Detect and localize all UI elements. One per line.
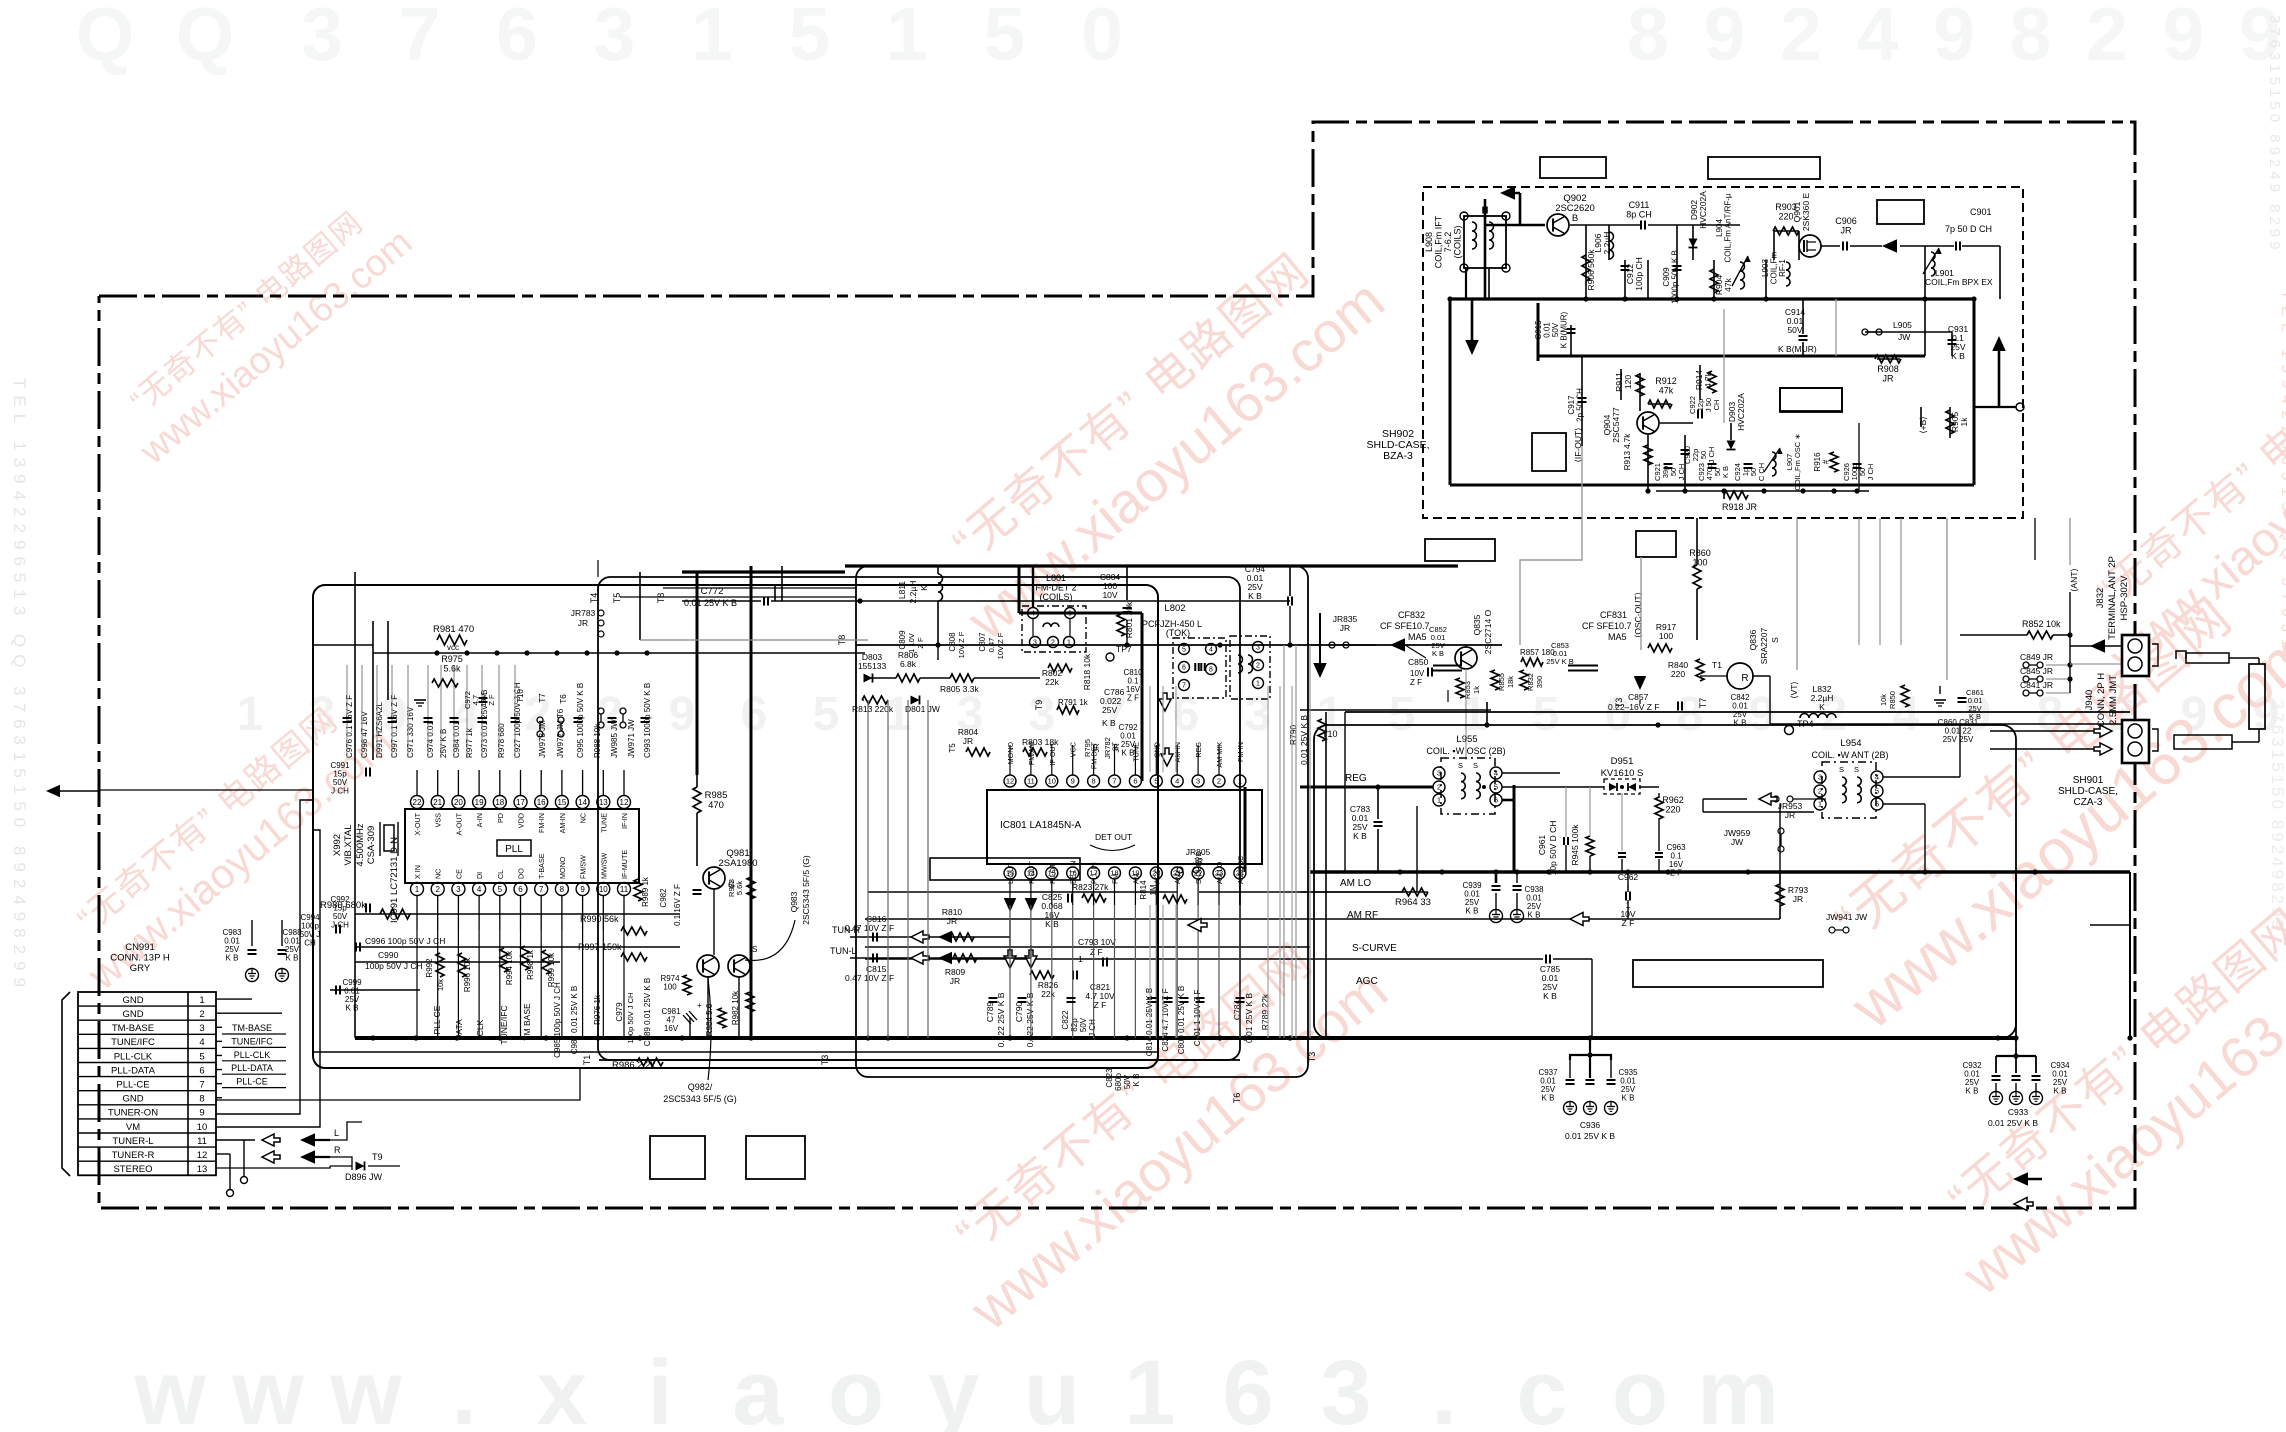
pin 9 IC991 <box>576 855 589 930</box>
svg-text:6: 6 <box>518 885 523 894</box>
label S-CURVE <box>1352 943 1397 954</box>
pin 5 IC801 <box>1150 742 1162 787</box>
capacitor C996 100p <box>356 936 445 952</box>
capacitor C911 8p CH <box>1626 200 1652 230</box>
arrow bottom right <box>2013 1172 2042 1210</box>
arrow open down 2 <box>1161 748 1173 766</box>
capacitor C901 7p 50 D CH <box>1945 207 1992 251</box>
resistor R908 JR <box>1875 355 1901 384</box>
svg-text:25V K B: 25V K B <box>1546 657 1574 666</box>
svg-text:K B: K B <box>1466 907 1479 916</box>
pin 20 IC801 <box>1150 866 1162 905</box>
svg-text:T5: T5 <box>948 743 957 753</box>
resistor R974 100 <box>660 974 691 995</box>
svg-text:c: c <box>1516 1342 1567 1432</box>
svg-text:K B: K B <box>1622 1094 1635 1103</box>
capacitor symbols under IC801 <box>989 998 1245 1002</box>
svg-text:10p 50V D CH: 10p 50V D CH <box>1548 821 1558 876</box>
svg-text:PLL-DATA: PLL-DATA <box>111 1065 156 1076</box>
svg-text:11: 11 <box>620 885 629 894</box>
svg-text:4: 4 <box>477 885 482 894</box>
capacitor C922 12p <box>1688 396 1721 418</box>
wire J832 feed <box>2070 635 2122 693</box>
capacitor C921 39p <box>1653 463 1686 481</box>
jumper JR835 JR <box>1329 614 1405 652</box>
capacitor C994 100p <box>300 913 340 948</box>
svg-text:1: 1 <box>886 0 928 76</box>
capacitor C914 0.01 50V <box>1778 307 1817 354</box>
svg-text:CZA-3: CZA-3 <box>2074 797 2103 808</box>
svg-text:GND: GND <box>122 995 143 1006</box>
capacitor C917 2p 50 CH <box>1567 388 1587 422</box>
svg-text:R964 33: R964 33 <box>1395 897 1431 908</box>
svg-text:R791 1k: R791 1k <box>1058 698 1089 707</box>
resistor R814 1M <box>1139 880 1187 903</box>
ground <box>1934 686 1946 706</box>
svg-text:J832: J832 <box>2095 588 2106 609</box>
wire T7 box line <box>1326 698 2130 1038</box>
svg-text:JR783: JR783 <box>571 608 596 618</box>
capacitor C783 0.01 <box>1350 784 1383 872</box>
svg-text:COIL. ▪W ANT (2B): COIL. ▪W ANT (2B) <box>1811 750 1888 760</box>
transistor Q904 2SC5477 <box>1602 407 1659 443</box>
test point TP7 <box>1106 644 1132 661</box>
resistor R855 18k <box>1491 670 1515 691</box>
capacitor C793 10V <box>1078 937 1116 967</box>
wire CN991 to PLL <box>216 800 420 1161</box>
capacitor C842 0.01 <box>1730 693 1750 728</box>
pin 7 IC801 <box>1109 741 1121 787</box>
svg-text:VDD: VDD <box>517 813 526 828</box>
label IF-OUT <box>1573 428 1583 463</box>
antenna plug J832 <box>2176 651 2259 664</box>
svg-text:R994 10k: R994 10k <box>505 950 514 985</box>
svg-text:7: 7 <box>199 1080 204 1091</box>
svg-text:1: 1 <box>1437 796 1441 805</box>
label ANT <box>2069 568 2079 592</box>
svg-text:JW: JW <box>1898 332 1910 342</box>
svg-text:CH: CH <box>304 939 316 948</box>
arrow AM RF <box>1188 913 1589 932</box>
connector CN991 table <box>62 992 216 1176</box>
svg-text:C936: C936 <box>1580 1120 1601 1130</box>
svg-text:K B: K B <box>1122 749 1135 758</box>
svg-text:MONO: MONO <box>1006 742 1015 765</box>
capacitor C860 0.01 / C831 22 <box>1938 718 1979 744</box>
label T6 <box>1232 1093 1242 1104</box>
svg-text:T8: T8 <box>656 593 666 604</box>
resistor R826 22k <box>1030 971 1077 1000</box>
pin 19 IC801 <box>1129 867 1141 905</box>
svg-text:L905: L905 <box>1893 320 1912 330</box>
svg-text:6: 6 <box>199 1065 204 1076</box>
svg-text:JR: JR <box>963 736 973 746</box>
svg-text:16: 16 <box>537 798 546 807</box>
svg-text:470: 470 <box>708 800 724 811</box>
svg-text:5: 5 <box>984 0 1026 76</box>
arrow into shield <box>1500 186 1515 200</box>
label Q983 2SC5343 <box>745 855 811 960</box>
svg-text:Q983: Q983 <box>789 891 799 912</box>
svg-text:13: 13 <box>599 798 608 807</box>
arrow into J940 pin1 <box>2094 725 2112 737</box>
svg-text:C901: C901 <box>1970 207 1992 217</box>
capacitor C992 15p <box>330 895 370 930</box>
wire IC801 verticals <box>1010 905 1240 1038</box>
resistor R985 470 <box>693 787 727 813</box>
pin 9 IC801 <box>1067 742 1079 787</box>
arrow open down 1 <box>1159 693 1171 711</box>
svg-text:C984 0.01: C984 0.01 <box>452 721 461 758</box>
svg-text:K B: K B <box>1966 1087 1979 1096</box>
capacitor C849 JR / C845 JR / C841 JR <box>2020 652 2073 696</box>
svg-text:(TOK): (TOK) <box>1166 628 1190 638</box>
capacitor C809 1 10V <box>898 630 925 653</box>
svg-text:3: 3 <box>1320 1342 1371 1432</box>
svg-text:7: 7 <box>539 885 544 894</box>
wire mid top links <box>598 566 856 601</box>
svg-text:TUNER-ON: TUNER-ON <box>108 1108 158 1119</box>
wire L801 heavy <box>1019 566 1142 781</box>
jumper JW941 JW <box>1826 912 1867 933</box>
resistor R853 1k <box>1456 678 1481 699</box>
svg-text:10: 10 <box>197 1122 208 1133</box>
svg-text:220: 220 <box>1671 669 1685 679</box>
svg-text:5: 5 <box>789 0 831 76</box>
resistor R912 47k <box>1648 376 1677 408</box>
svg-text:1: 1 <box>1256 681 1260 688</box>
svg-text:4.7k: 4.7k <box>1703 371 1713 388</box>
svg-text:NC: NC <box>434 869 443 879</box>
svg-text:FM-IN: FM-IN <box>537 813 546 833</box>
transistor Q982 <box>697 955 719 977</box>
svg-text:R860: R860 <box>1689 548 1711 558</box>
svg-text:HSP-302V: HSP-302V <box>2119 575 2130 621</box>
capacitor C937 0.01 <box>1538 1068 1576 1115</box>
resistor R809 JR <box>945 954 977 986</box>
svg-text:K B: K B <box>1432 649 1444 658</box>
svg-text:8: 8 <box>199 1094 204 1105</box>
svg-text:10: 10 <box>1048 777 1056 786</box>
svg-text:K B: K B <box>1734 719 1747 728</box>
resistor R998 1k <box>521 946 535 980</box>
jumper JR953 JR <box>1773 796 1803 820</box>
svg-text:C971 330 16V: C971 330 16V <box>406 706 415 758</box>
filter L802 PCFJZH-450 <box>1142 603 1270 699</box>
pin 4 IC991 <box>473 872 486 930</box>
svg-text:2SK360 E: 2SK360 E <box>1801 193 1811 232</box>
label T8 <box>656 593 666 604</box>
label T5 <box>612 593 622 604</box>
svg-text:TEL 13942296513 QQ 376315150 8: TEL 13942296513 QQ 376315150 892498299 <box>10 378 29 994</box>
svg-text:R814: R814 <box>1139 880 1148 900</box>
svg-text:11: 11 <box>197 1136 207 1147</box>
coil L832 2.2uH <box>1800 684 1836 718</box>
label AM RF <box>1347 910 1378 921</box>
svg-text:6: 6 <box>741 688 768 741</box>
svg-text:K B: K B <box>1721 466 1730 478</box>
svg-text:0: 0 <box>1081 0 1123 76</box>
svg-text:4: 4 <box>1175 777 1179 786</box>
svg-text:Q982/: Q982/ <box>688 1082 713 1092</box>
svg-text:R823 27k: R823 27k <box>1072 882 1109 892</box>
blank label box <box>1540 157 1606 178</box>
wire stereo route <box>216 1166 330 1168</box>
pin 14 IC991 <box>576 770 589 823</box>
svg-text:K B(MUR): K B(MUR) <box>1778 344 1817 354</box>
svg-text:IF-IN: IF-IN <box>620 813 629 829</box>
svg-text:18: 18 <box>495 798 504 807</box>
wire L R routing <box>330 1122 362 1170</box>
svg-text:R818 10k: R818 10k <box>1082 653 1092 690</box>
label VT <box>1789 681 1799 699</box>
wire long interconnects <box>99 518 2130 1100</box>
svg-text:COIL,Fm IFT: COIL,Fm IFT <box>1434 215 1444 268</box>
svg-text:15: 15 <box>557 798 566 807</box>
capacitor C936 0.01 <box>1565 1035 1615 1141</box>
filter CF832 SFE10.7 <box>1380 610 1462 671</box>
capacitor C999 0.01 <box>336 978 362 1013</box>
capacitor C816 0.47 <box>845 914 894 942</box>
svg-text:S-CURVE: S-CURVE <box>1352 943 1397 954</box>
svg-text:19: 19 <box>475 798 484 807</box>
svg-text:JR: JR <box>1112 743 1121 753</box>
svg-text:REG: REG <box>1345 773 1367 784</box>
svg-text:0.1 16V Z F: 0.1 16V Z F <box>673 884 682 926</box>
svg-text:CL: CL <box>496 870 505 879</box>
svg-text:R981 470: R981 470 <box>433 624 474 635</box>
arrow <box>1882 239 1897 253</box>
svg-text:L954: L954 <box>1840 738 1861 749</box>
resistor R906 560k <box>1582 249 1596 291</box>
svg-text:JR: JR <box>1193 856 1203 866</box>
blank label box <box>1877 200 1924 224</box>
pin 22 IC801 <box>1192 852 1204 905</box>
label TUNE/IFC <box>499 1005 509 1044</box>
svg-text:R998 1k: R998 1k <box>526 949 535 980</box>
svg-text:Z F: Z F <box>487 694 496 706</box>
svg-text:JR: JR <box>947 916 957 926</box>
pin 7 IC991 <box>535 853 548 930</box>
wire shield to mid <box>1520 446 2070 680</box>
arrow into J832 <box>2090 639 2105 653</box>
capacitor C926 100p <box>1842 463 1875 481</box>
svg-text:A-IN: A-IN <box>475 813 484 827</box>
svg-text:D951: D951 <box>1611 756 1634 767</box>
wire REG heavy <box>1244 787 1247 872</box>
svg-text:R978 680: R978 680 <box>497 723 506 758</box>
svg-text:X IN: X IN <box>413 865 422 879</box>
pin 3 IC801 <box>1192 742 1204 787</box>
svg-text:1: 1 <box>691 0 733 76</box>
svg-text:20: 20 <box>454 798 463 807</box>
svg-text:376315150 89249 8299: 376315150 89249 8299 <box>2266 15 2283 254</box>
svg-text:TUNE/IFC: TUNE/IFC <box>111 1037 155 1048</box>
labels TM-BASE TUNE/IFC PLL-CLK PLL-DATA PLL-CE <box>222 1023 286 1088</box>
capacitor C772 0.01 <box>682 586 863 608</box>
capacitor C790 0.022 <box>1014 992 1035 1047</box>
svg-text:L908: L908 <box>1424 232 1434 252</box>
svg-text:CSA-309: CSA-309 <box>366 826 377 865</box>
svg-text:CN991: CN991 <box>125 942 155 953</box>
label AGC <box>1356 976 1378 987</box>
svg-text:TUNER-R: TUNER-R <box>112 1150 155 1161</box>
label CN991 CONN 13P H GRY <box>110 942 170 974</box>
svg-text:2SC5343 5F/5 (G): 2SC5343 5F/5 (G) <box>801 855 811 925</box>
svg-text:AGC: AGC <box>1356 976 1378 987</box>
svg-text:25V K B: 25V K B <box>439 729 448 758</box>
svg-text:1k: 1k <box>1959 417 1969 427</box>
svg-text:AGC/: AGC/ <box>1152 866 1161 884</box>
svg-text:L801: L801 <box>1046 573 1066 583</box>
svg-text:Z F: Z F <box>1127 694 1139 703</box>
svg-text:5: 5 <box>1494 783 1498 792</box>
svg-text:D896 JW: D896 JW <box>345 1172 383 1182</box>
svg-text:3: 3 <box>1437 769 1441 778</box>
pin 4 IC801 <box>1171 742 1183 787</box>
svg-text:T-BASE: T-BASE <box>537 853 546 879</box>
crystal X992 VIB.XTAL <box>332 822 398 867</box>
capacitor C909 1000p 50V K B <box>1662 250 1682 304</box>
svg-text:Z F: Z F <box>1410 678 1422 687</box>
svg-text:C808: C808 <box>948 632 957 652</box>
svg-text:R908: R908 <box>1877 364 1899 374</box>
svg-text:C906: C906 <box>1835 216 1857 226</box>
pin 10 IC801 <box>1046 741 1058 787</box>
pin 6 IC801 <box>1129 742 1141 787</box>
svg-text:IF-MUTE: IF-MUTE <box>620 850 629 879</box>
label T10 T7 T6 <box>516 689 568 704</box>
svg-text:Q835: Q835 <box>1472 614 1482 635</box>
svg-text:J CH: J CH <box>1677 464 1686 481</box>
resistor R997 150k <box>578 942 647 961</box>
capacitor C825 0.068 16V <box>1041 892 1063 929</box>
pin 8 IC991 <box>555 856 568 930</box>
svg-text:1: 1 <box>415 885 420 894</box>
svg-text:STEREO: STEREO <box>113 1164 152 1175</box>
label IC801 LA1845N-A <box>1000 820 1081 831</box>
ground symbol <box>414 700 426 706</box>
svg-text:7: 7 <box>1182 683 1186 690</box>
svg-text:1: 1 <box>1124 1342 1175 1432</box>
label OSC-OUT <box>1633 592 1643 638</box>
svg-text:K B: K B <box>286 954 299 963</box>
pin 15 IC801 <box>1046 863 1058 905</box>
capacitor C933 0.01 <box>1988 1038 2038 1128</box>
svg-text:2SC5343 5F/5 (G): 2SC5343 5F/5 (G) <box>663 1094 737 1104</box>
enclosure rounded box PLL <box>313 585 1158 1068</box>
svg-text:R999 10k: R999 10k <box>547 952 556 987</box>
svg-text:R801 10k: R801 10k <box>1124 601 1134 638</box>
enclosure rounded box T4 T5 T8 <box>598 577 1240 1060</box>
svg-text:S: S <box>1854 765 1859 774</box>
coil L907 FM OSC <box>1764 433 1802 490</box>
pin 11 IC801 <box>1025 742 1037 787</box>
svg-text:100: 100 <box>1692 558 1707 568</box>
capacitor C792 0.01 <box>1118 723 1138 758</box>
svg-text:JW: JW <box>1731 837 1743 847</box>
label DET OUT <box>1090 832 1135 851</box>
svg-text:T7: T7 <box>538 693 547 703</box>
svg-text:10V: 10V <box>1102 590 1117 600</box>
svg-text:3: 3 <box>199 1023 204 1034</box>
IC U801 LA1845N-A body <box>987 790 1262 864</box>
varactor D951 KV1610 <box>1601 756 1644 794</box>
capacitor C931 0.1 25V <box>1948 324 1969 361</box>
label REG <box>1345 773 1367 784</box>
svg-text:J940: J940 <box>2084 690 2095 711</box>
svg-text:HVC202A: HVC202A <box>1698 191 1708 229</box>
svg-text:T6: T6 <box>1232 1093 1242 1104</box>
transistor Q836 SRA2207 <box>1634 628 1780 690</box>
svg-text:9: 9 <box>580 885 585 894</box>
diode D801 JW <box>905 696 940 715</box>
svg-text:VIB.XTAL: VIB.XTAL <box>343 824 354 865</box>
resistor R903 220 <box>1773 202 1799 235</box>
svg-text:R992: R992 <box>425 958 434 978</box>
wire L802 pin drops <box>1150 686 1292 1038</box>
label SH902 <box>1366 428 1429 462</box>
filter CF831 SFE10.7 <box>1568 610 1632 671</box>
coil L811 2.2uH <box>897 566 943 645</box>
svg-text:R913 4.7k: R913 4.7k <box>1623 433 1632 470</box>
capacitor C784 <box>1232 993 1254 1043</box>
svg-text:17: 17 <box>516 798 525 807</box>
svg-text:TP4: TP4 <box>1797 719 1814 729</box>
svg-text:5: 5 <box>1389 688 1416 741</box>
arrow down L802 <box>1313 613 1327 678</box>
svg-text:CF832: CF832 <box>1398 610 1425 620</box>
resistor R975 5.6k <box>432 654 463 687</box>
svg-text:K B: K B <box>1543 991 1557 1001</box>
svg-text:5: 5 <box>498 885 503 894</box>
svg-text:⟨ANT⟩: ⟨ANT⟩ <box>2069 568 2079 592</box>
capacitor bank labels above IC991 <box>345 682 652 758</box>
svg-text:C979: C979 <box>615 1002 624 1022</box>
svg-text:2: 2 <box>1256 663 1260 670</box>
capacitor C801 1 10V <box>1193 990 1202 1047</box>
capacitor C804 100 10V <box>1100 572 1132 612</box>
svg-text:PLL-CLK: PLL-CLK <box>234 1050 271 1060</box>
svg-text:2: 2 <box>2086 0 2128 76</box>
svg-text:390: 390 <box>1535 676 1544 689</box>
svg-text:Z F: Z F <box>916 637 925 649</box>
svg-text:2: 2 <box>1818 787 1822 796</box>
arrow pin14 down <box>1025 898 1038 968</box>
arrow down <box>1465 299 1479 355</box>
svg-text:T1: T1 <box>1712 660 1722 670</box>
svg-text:R855: R855 <box>1497 673 1506 691</box>
capacitor C800 0.01 <box>1177 986 1186 1055</box>
svg-text:R986 2.2k: R986 2.2k <box>612 1060 656 1071</box>
svg-text:C849 JR: C849 JR <box>2020 652 2053 662</box>
svg-text:1: 1 <box>1818 800 1822 809</box>
pin 2 IC991 <box>431 869 444 930</box>
svg-text:K B: K B <box>2054 1087 2067 1096</box>
svg-text:1M: 1M <box>1149 884 1158 895</box>
svg-text:Z F: Z F <box>1622 918 1635 928</box>
resistor R990 56k <box>580 914 647 935</box>
svg-text:JW985 JW: JW985 JW <box>610 719 619 758</box>
svg-text:DO: DO <box>517 868 526 879</box>
svg-text:C807: C807 <box>978 632 987 652</box>
capacitor C982 0.1 16V <box>659 884 682 926</box>
svg-text:COIL. ▪W OSC (2B): COIL. ▪W OSC (2B) <box>1426 746 1505 756</box>
resistor R981 470 <box>433 624 474 652</box>
capacitor C961 10p 50V <box>1537 821 1568 876</box>
svg-text:16V: 16V <box>664 1024 679 1033</box>
svg-text:MA5: MA5 <box>1608 632 1627 642</box>
